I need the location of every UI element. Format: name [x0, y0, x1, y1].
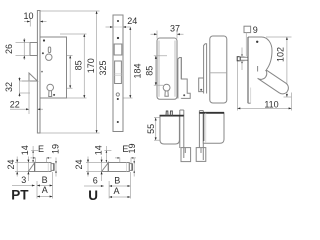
svg-text:110: 110: [264, 100, 278, 110]
svg-text:U: U: [88, 188, 98, 203]
svg-text:85: 85: [145, 66, 155, 76]
svg-text:55: 55: [146, 124, 156, 134]
svg-text:22: 22: [10, 100, 20, 110]
svg-text:PT: PT: [11, 188, 29, 203]
svg-text:B: B: [114, 176, 120, 186]
svg-text:A: A: [113, 186, 119, 196]
svg-text:14: 14: [93, 145, 103, 155]
svg-text:24: 24: [6, 159, 16, 169]
svg-text:E: E: [38, 144, 44, 154]
svg-text:170: 170: [86, 58, 96, 73]
svg-text:32: 32: [4, 82, 14, 92]
svg-text:184: 184: [133, 63, 143, 78]
svg-text:37: 37: [170, 24, 180, 34]
svg-text:24: 24: [127, 16, 137, 26]
svg-text:325: 325: [98, 60, 108, 75]
svg-text:24: 24: [74, 159, 84, 169]
svg-text:19: 19: [127, 143, 137, 153]
svg-text:85: 85: [73, 60, 83, 70]
svg-text:9: 9: [253, 25, 258, 35]
svg-text:102: 102: [275, 47, 285, 62]
svg-text:A: A: [42, 185, 48, 195]
svg-text:3: 3: [21, 175, 26, 185]
svg-text:26: 26: [4, 44, 14, 54]
svg-text:B: B: [42, 175, 48, 185]
svg-text:6: 6: [93, 176, 98, 186]
svg-text:10: 10: [23, 11, 33, 21]
svg-text:14: 14: [20, 145, 30, 155]
svg-text:19: 19: [50, 144, 60, 154]
